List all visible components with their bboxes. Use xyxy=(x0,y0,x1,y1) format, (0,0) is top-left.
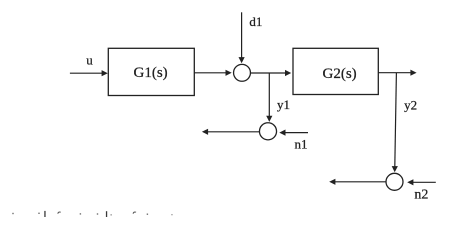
wire: measured output y2 arrow left from S3 xyxy=(329,179,386,185)
wire: n1 noise arrow into S2 xyxy=(279,130,308,136)
wire: G2 output arrow right xyxy=(378,70,416,76)
wire: y2 branch down to summer S3 xyxy=(392,73,398,173)
wire: measured output y1 arrow left from S2 xyxy=(202,129,259,135)
wire: y1 branch down to summer S2 xyxy=(266,73,272,122)
wire: d1 disturbance arrow down into S1 xyxy=(239,12,245,63)
wire: input u arrow into G1 xyxy=(70,70,108,76)
wire: n2 noise arrow into S3 xyxy=(407,179,436,185)
svg-text:d1: d1 xyxy=(249,14,262,29)
wire: G1 output to summer S1 xyxy=(194,70,231,76)
summer S3 xyxy=(386,173,403,190)
svg-text:G1(s): G1(s) xyxy=(134,65,168,81)
summer S1 xyxy=(234,64,251,81)
svg-text:G2(s): G2(s) xyxy=(323,66,357,82)
summer S2 xyxy=(259,123,276,140)
svg-text:n2: n2 xyxy=(414,187,428,202)
svg-text:n1: n1 xyxy=(295,136,308,151)
wire: S1 output to G2 xyxy=(251,70,292,76)
svg-text:y1: y1 xyxy=(277,97,290,112)
caption fragment (clipped letter tops at page bottom) xyxy=(12,211,172,217)
svg-text:u: u xyxy=(86,52,93,67)
svg-text:y2: y2 xyxy=(404,97,417,112)
block G1 xyxy=(108,48,194,95)
block G2 xyxy=(293,48,378,94)
